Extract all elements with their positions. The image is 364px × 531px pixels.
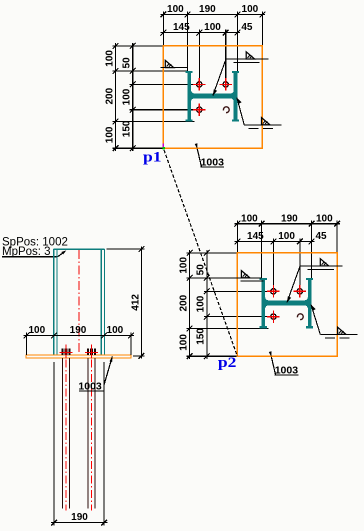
svg-text:190: 190: [70, 325, 87, 336]
elevation dim extension lines to plate ends: [25, 333, 27, 355]
MpPos leader with arrow: [2, 256, 58, 258]
weld symbol p2 bottom-right with leader: [311, 305, 316, 311]
position number 1003 leader p2: [269, 351, 272, 357]
svg-text:1003: 1003: [201, 156, 225, 168]
svg-text:100: 100: [178, 257, 189, 274]
svg-text:100: 100: [242, 4, 259, 15]
p2 second dimension row 145|100|45: [235, 241, 315, 243]
svg-text:200: 200: [178, 294, 189, 311]
svg-text:p1: p1: [143, 149, 162, 165]
anchor bolts p2 (red cross circles): [271, 289, 276, 294]
svg-text:100: 100: [204, 22, 221, 33]
svg-text:100: 100: [241, 213, 258, 224]
weld symbol p1 top-right with leader to web: [213, 89, 217, 95]
position number 1003 leader p1: [195, 143, 198, 149]
svg-text:100: 100: [316, 213, 333, 224]
elevation position number 1003 with leader: [110, 356, 113, 362]
svg-text:100: 100: [196, 295, 207, 312]
column H-section p2 (teal): [260, 278, 314, 329]
p2 inner left dimension column 50|100|150: [206, 250, 208, 359]
weld symbol p2 top-left: [234, 277, 261, 279]
column centerline (red dash-dot): [78, 250, 80, 354]
p2 left extension lines: [187, 252, 238, 254]
svg-text:200: 200: [104, 87, 115, 104]
p2 top extension lines: [236, 221, 238, 253]
p1 second dimension row 145|100|45: [161, 32, 241, 34]
bottom dim extension lines: [53, 362, 55, 526]
svg-text:150: 150: [122, 120, 133, 137]
elevation dimension row 100|190|100: [24, 335, 135, 337]
p1 left dimension column 100|200|100: [115, 43, 117, 151]
dashed connector line p1 to p2: [164, 150, 237, 356]
svg-text:190: 190: [71, 512, 88, 523]
open ring mark p1: [223, 107, 229, 113]
base plate p2 (orange outline): [237, 253, 337, 356]
svg-text:45: 45: [241, 22, 253, 33]
p2 top dimension row 100|190|100: [235, 223, 340, 225]
svg-text:100: 100: [28, 325, 45, 336]
weld symbol p1 top-left: [160, 67, 187, 69]
svg-text:100: 100: [278, 231, 295, 242]
p1 left extension lines: [113, 45, 164, 47]
svg-text:150: 150: [196, 328, 207, 345]
weld symbol p2 top-right with leader to web: [287, 296, 291, 302]
svg-text:p2: p2: [218, 355, 237, 371]
vertical dimension 412: [140, 246, 142, 358]
bottom dimension 190: [51, 522, 108, 524]
p2 left dimension column 100|200|100: [189, 250, 191, 359]
svg-text:100: 100: [104, 126, 115, 143]
anchor bolt right elevation (head + shaft): [87, 349, 96, 355]
anchor bolts p1 (red cross circles): [197, 82, 202, 87]
svg-text:100: 100: [178, 334, 189, 351]
svg-text:412: 412: [130, 294, 141, 311]
svg-text:100: 100: [104, 50, 115, 67]
base plate p1 (orange outline): [163, 46, 262, 148]
base plate elevation (orange): [26, 355, 131, 358]
svg-text:100: 100: [167, 4, 184, 15]
insertion marker p1 (magenta+green): [162, 144, 164, 149]
svg-text:190: 190: [281, 213, 298, 224]
svg-text:1003: 1003: [275, 364, 299, 376]
weld symbol p1 bottom-right with leader: [237, 98, 242, 104]
svg-text:50: 50: [122, 57, 133, 69]
column shaft elevation (teal): [53, 249, 55, 355]
open ring mark p2: [297, 314, 303, 320]
svg-text:100: 100: [122, 88, 133, 105]
svg-text:1003: 1003: [78, 381, 102, 393]
svg-text:45: 45: [315, 231, 327, 242]
p1 top extension lines: [162, 12, 164, 46]
svg-text:190: 190: [199, 4, 216, 15]
p1 top dimension row 100|190|100: [161, 14, 266, 16]
p1 inner left dimension column 50|100|150: [132, 43, 134, 151]
svg-text:100: 100: [107, 325, 124, 336]
column H-section p1 (teal): [186, 71, 240, 122]
anchor bolt left elevation (head + shaft): [61, 349, 70, 355]
